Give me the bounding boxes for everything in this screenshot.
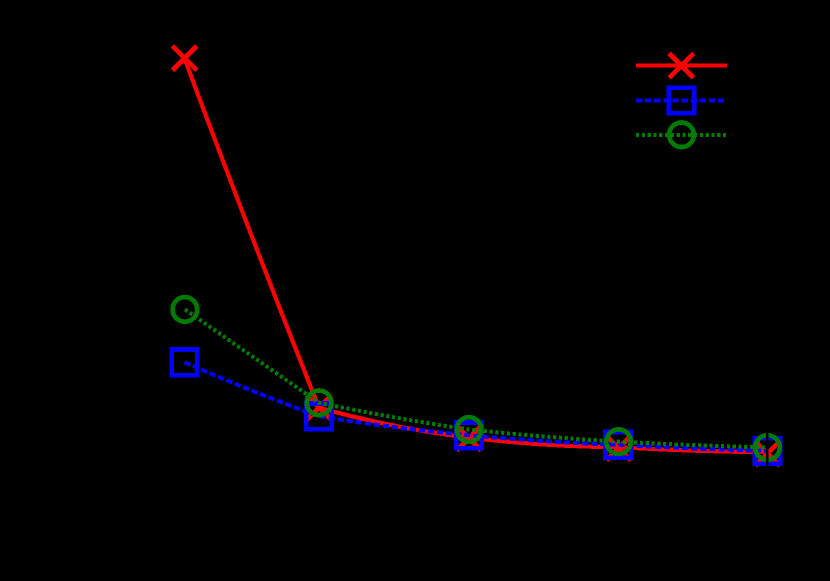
series 3 green circle markers — [173, 297, 780, 460]
series 2 blue dashed line — [185, 362, 768, 451]
legend entry 3: green dotted line sample with circle marker — [636, 123, 727, 148]
series 2 blue square markers — [172, 350, 781, 464]
legend entry 1: red solid line sample with X marker — [636, 53, 727, 77]
series 1 red solid line — [185, 59, 768, 452]
series 1 red X markers — [172, 46, 779, 466]
right axis spine (black, drawn over series) — [766, 38, 769, 517]
series 3 green dotted line — [185, 309, 768, 447]
legend entry 2: blue dashed line sample with square marker — [636, 88, 727, 114]
